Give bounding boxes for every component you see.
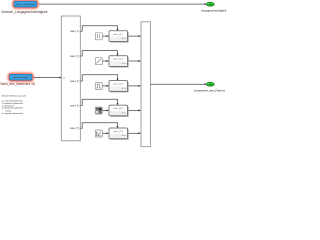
- svg-text:3 = Ausscheren (plötzliche: 3 = Ausscheren (plötzliche: [2, 107, 23, 110]
- svg-text:Aktion: Aktion: [122, 37, 127, 40]
- svg-text:Nummer für Manöverauswahl:: Nummer für Manöverauswahl:: [2, 96, 27, 98]
- svg-text:Wahl_des_Manövers 1D: Wahl_des_Manövers 1D: [0, 82, 35, 86]
- svg-text:Wunsch_Längsgeschwindigkeit: Wunsch_Längsgeschwindigkeit: [2, 10, 48, 14]
- svg-text:4 = doppelter Spurwechsel: 4 = doppelter Spurwechsel: [2, 112, 24, 115]
- svg-text:Aktion: Aktion: [122, 62, 127, 65]
- svg-text:case: [ 3 ]: case: [ 3 ]: [113, 84, 123, 86]
- svg-text:case [ 4 ]: case [ 4 ]: [70, 105, 80, 107]
- svg-text:Längsgeschwindigkeit: Längsgeschwindigkeit: [201, 8, 227, 12]
- svg-text:case [ 2 ]: case [ 2 ]: [70, 56, 80, 58]
- svg-text:case [ 3 ]: case [ 3 ]: [70, 81, 80, 83]
- svg-text:Manöverauswahl: Manöverauswahl: [14, 76, 29, 79]
- svg-text:Aktion: Aktion: [122, 111, 127, 114]
- svg-text:case: [ 1 ]: case: [ 1 ]: [113, 34, 123, 36]
- svg-text:case [ 5 ]: case [ 5 ]: [70, 128, 80, 130]
- svg-text:case: [ 5 ]: case: [ 5 ]: [113, 131, 123, 133]
- svg-text:case: [ 4 ]: case: [ 4 ]: [113, 108, 123, 110]
- svg-text:Aktion: Aktion: [122, 134, 127, 137]
- svg-text:Wunsch_Geschwindig: Wunsch_Geschwindig: [16, 4, 35, 6]
- svg-text:Aktion: Aktion: [122, 87, 127, 90]
- svg-text:case [ 1 ]: case [ 1 ]: [70, 31, 80, 33]
- svg-text:Lenkwinkel_des_Fahrers: Lenkwinkel_des_Fahrers: [194, 89, 226, 93]
- svg-text:case: [ 2 ]: case: [ 2 ]: [113, 59, 123, 61]
